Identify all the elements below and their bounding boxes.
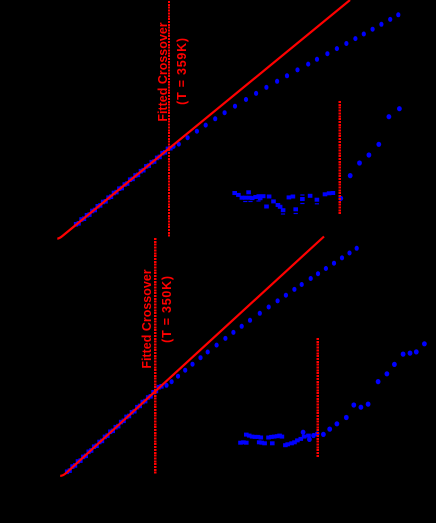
- label (T = 359K) (top panel): [176, 37, 189, 105]
- inset left cluster points (bottom inset): [238, 433, 311, 448]
- inset left cluster points (top inset): [232, 190, 335, 214]
- data points diverging trail (top panel): [171, 12, 400, 149]
- label Fitted Crossover (bottom panel): [141, 269, 154, 368]
- label Fitted Crossover (top panel): [157, 22, 170, 121]
- data points dense band (bottom panel): [65, 384, 164, 474]
- crossover dotted line (top panel, T=359K): [168, 1, 170, 237]
- label (T = 350K) (bottom panel): [161, 275, 174, 343]
- inset crossover dotted line (bottom inset): [317, 338, 319, 457]
- inset right branch points (bottom inset): [301, 341, 427, 442]
- data points diverging trail (bottom panel): [164, 246, 358, 388]
- fitted line (bottom panel): [60, 237, 324, 476]
- crossover dotted line (bottom panel, T=350K): [154, 238, 156, 474]
- inset right branch points (top inset): [338, 106, 401, 201]
- inset crossover dotted line (top inset): [339, 101, 341, 214]
- fitted line (top panel): [57, 0, 350, 239]
- data points dense band (top panel): [74, 146, 173, 227]
